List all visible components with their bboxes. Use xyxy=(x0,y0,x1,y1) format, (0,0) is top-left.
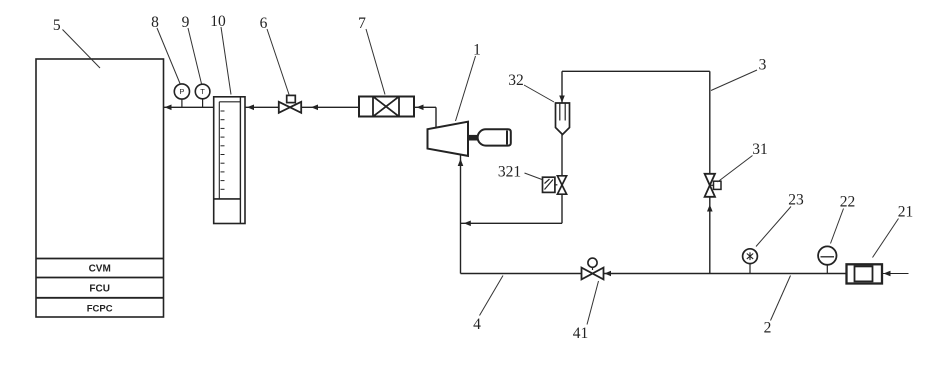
svg-text:FCPC: FCPC xyxy=(87,304,113,315)
svg-text:3: 3 xyxy=(759,57,767,74)
svg-text:41: 41 xyxy=(573,325,589,342)
svg-text:10: 10 xyxy=(210,13,226,30)
svg-text:6: 6 xyxy=(260,15,268,32)
svg-text:P: P xyxy=(179,87,184,96)
svg-text:5: 5 xyxy=(53,17,61,34)
svg-text:2: 2 xyxy=(764,320,772,337)
svg-text:21: 21 xyxy=(898,204,914,221)
svg-text:CVM: CVM xyxy=(89,263,111,274)
svg-text:321: 321 xyxy=(498,164,521,181)
svg-text:32: 32 xyxy=(508,72,524,89)
svg-text:T: T xyxy=(200,87,205,96)
svg-text:31: 31 xyxy=(752,141,768,158)
svg-text:FCU: FCU xyxy=(89,283,110,294)
svg-text:1: 1 xyxy=(473,42,481,59)
svg-text:7: 7 xyxy=(358,15,366,32)
svg-text:4: 4 xyxy=(473,316,481,333)
svg-text:23: 23 xyxy=(788,192,804,209)
svg-text:9: 9 xyxy=(182,14,190,31)
svg-text:22: 22 xyxy=(840,194,856,211)
svg-text:8: 8 xyxy=(151,14,159,31)
